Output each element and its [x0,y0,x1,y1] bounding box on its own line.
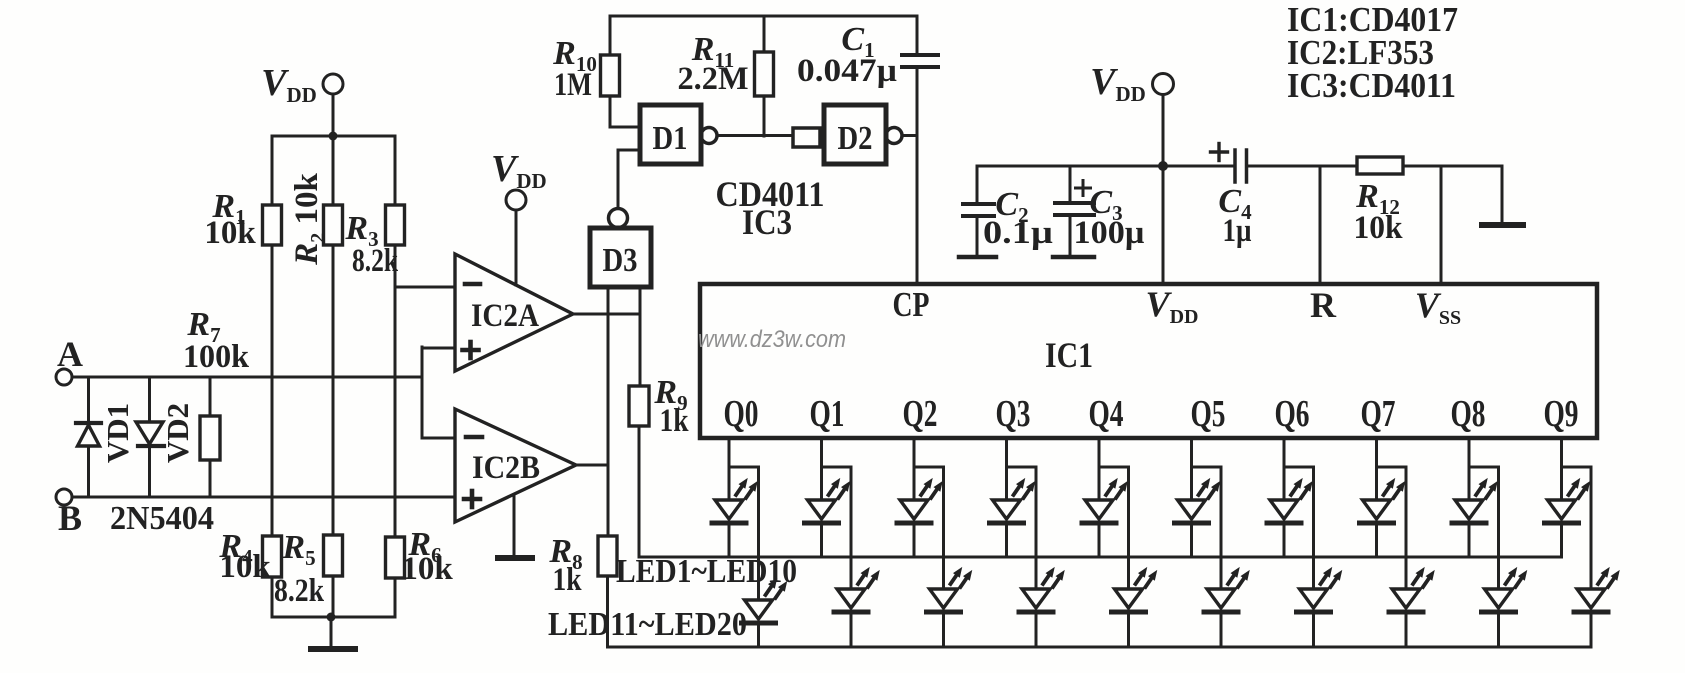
svg-text:1k: 1k [660,403,690,439]
LED LED2 [805,479,850,557]
ground (top-right) [1482,222,1523,228]
power VDD terminal (right) [1090,61,1173,166]
svg-text:10k: 10k [204,215,256,251]
wire Q9 branch stub [1562,467,1592,589]
capacitor C3 [1053,166,1145,257]
LED LED5 [1082,479,1127,557]
svg-text:R: R [1310,285,1337,325]
pin label Q3 [996,393,1031,435]
pin label Q5 [1191,393,1226,435]
wire D2 out [902,134,917,137]
svg-text:Q6: Q6 [1275,393,1310,435]
svg-text:VSS: VSS [1415,285,1461,329]
svg-text:VDD: VDD [1090,61,1146,106]
power VDD terminal (op-amp) [491,148,547,285]
label IC list [1287,0,1458,105]
svg-text:Q8: Q8 [1451,393,1486,435]
svg-text:0.1µ: 0.1µ [983,215,1053,251]
capacitor C2 [959,166,1053,257]
svg-text:Q9: Q9 [1544,393,1579,435]
label CD4011 / IC3 [716,174,825,242]
wire B rail [72,496,455,499]
wire IC2B output [576,464,608,467]
watermark [698,326,846,353]
wire Q2 branch stub [914,467,944,589]
resistor R1 [204,136,281,251]
svg-text:1µ: 1µ [1223,213,1252,249]
svg-text:R5: R5 [281,529,315,570]
wire Q0 branch stub [729,467,759,600]
gate D1 [640,105,701,164]
wire Q5 branch stub [1192,467,1222,589]
svg-text:VDD: VDD [261,62,317,107]
wire A to inputs bracket [422,347,455,438]
pin label Q2 [903,393,938,435]
wire ground rail [272,616,395,619]
gate D2 [824,105,886,164]
wire LED11-20 cathode bus [608,646,1592,649]
svg-text:Q1: Q1 [810,393,845,435]
svg-text:VD1: VD1 [100,403,135,463]
svg-text:www.dz3w.com: www.dz3w.com [698,326,846,353]
resistor R6 [386,526,454,617]
LED LED15 [1112,568,1157,647]
wire LED1-10 cathode bus [639,556,1562,559]
wire CP net [916,69,919,284]
wire Q6 pin [1283,438,1286,500]
wire Q6 branch stub [1284,467,1314,589]
LED LED6 [1175,479,1220,557]
pin label VSS [1415,285,1461,329]
diode VD1 [76,377,135,497]
resistor R10 [552,16,640,127]
pin label Q9 [1544,393,1579,435]
label LED1~LED10 [616,553,797,590]
svg-text:Q0: Q0 [724,393,759,435]
wire R2 lower [332,245,335,535]
svg-text:2N5404: 2N5404 [110,500,214,537]
wire supply rail [977,166,1502,222]
svg-text:D1: D1 [653,120,688,157]
terminal A [56,334,83,385]
wire Q3 branch stub [1007,467,1037,589]
bubble D2 output [886,128,902,144]
svg-text:Q4: Q4 [1089,393,1124,435]
resistor R8 [548,533,617,647]
resistor R2 [289,136,343,266]
wire VSS pin [1440,166,1443,284]
capacitor C4 [1211,144,1253,250]
wire A rail [72,376,422,379]
diode VD2 [136,377,195,497]
svg-text:1k: 1k [553,562,583,598]
junction dot ground [327,613,336,622]
wire IC2A output [573,313,640,316]
wire IC2A inverting input [395,286,455,289]
LED LED14 [1019,568,1064,647]
LED LED16 [1204,568,1249,647]
svg-text:IC2B: IC2B [472,450,540,486]
ground (bottom-left) [311,617,355,649]
wire top rail [610,15,917,18]
wire D3 input left / to R8 [607,287,610,536]
svg-text:1M: 1M [554,67,592,103]
bubble D1 output [701,128,717,144]
svg-text:R2 10k: R2 10k [289,173,329,266]
svg-text:A: A [57,334,83,374]
gate D2 input stub [793,128,820,147]
label IC1 [1045,335,1093,375]
svg-text:Q2: Q2 [903,393,938,435]
LED LED11 [742,579,787,647]
capacitor C1 [797,16,938,89]
wire Q4 branch stub [1099,467,1129,589]
LED LED18 [1389,568,1434,647]
label 2N5404 [110,500,214,537]
pin label Q4 [1089,393,1124,435]
LED LED8 [1360,479,1405,557]
wire R3 lower [394,245,397,537]
svg-text:IC1: IC1 [1045,335,1093,375]
wire Q1 branch stub [822,467,852,589]
op-amp IC2B [455,409,576,522]
bubble D3 output [609,209,628,228]
LED LED13 [927,568,972,647]
LED LED3 [897,479,942,557]
wire R pin [1319,166,1322,284]
svg-text:IC3:CD4011: IC3:CD4011 [1287,66,1456,105]
wire R1 lower [271,245,274,536]
gate D3 [590,228,651,287]
LED LED9 [1452,479,1497,557]
wire Q8 branch stub [1469,467,1499,589]
ground (IC2B) [498,497,532,558]
LED LED1 [712,479,757,557]
wire Q8 pin [1468,438,1471,500]
resistor R7 [183,306,250,497]
svg-text:Q3: Q3 [996,393,1031,435]
op-amp IC2A [455,254,573,371]
pin label Q0 [724,393,759,435]
junction dot VDD-left [329,132,338,141]
resistor R9 [629,374,689,557]
LED LED19 [1482,568,1527,647]
pin label CP [893,285,930,324]
wire D1 out to D2 [717,134,793,137]
resistor R4 [218,528,281,617]
junction dot VDD-right [1158,161,1168,171]
svg-text:10k: 10k [401,551,453,587]
svg-text:0.047µ: 0.047µ [797,53,897,89]
svg-text:VDD: VDD [491,148,547,193]
svg-text:8.2k: 8.2k [274,573,325,609]
svg-text:100µ: 100µ [1074,215,1145,251]
pin label Q1 [810,393,845,435]
svg-text:LED1~LED10: LED1~LED10 [616,553,797,590]
wire Q2 pin [913,438,916,500]
LED LED17 [1297,568,1342,647]
svg-text:CP: CP [893,285,930,324]
label LED11~LED20 [548,606,747,643]
wire Q7 branch stub [1377,467,1407,589]
wire Q0 pin [728,438,731,500]
resistor R12 [1354,157,1404,246]
wire Q7 pin [1375,438,1378,500]
svg-text:D2: D2 [838,120,873,157]
wire VDD pin [1162,166,1165,284]
IC IC1 block [700,284,1597,438]
wire Q9 pin [1560,438,1563,500]
svg-text:LED11~LED20: LED11~LED20 [548,606,747,643]
wire Q1 pin [820,438,823,500]
svg-text:100k: 100k [183,339,250,375]
svg-text:2.2M: 2.2M [678,61,749,97]
wire Q5 pin [1190,438,1193,500]
pin label R [1310,285,1337,325]
LED LED7 [1267,479,1312,557]
wire VDD rail left [272,135,395,138]
svg-text:IC2A: IC2A [471,298,539,334]
wire D3 out to D1 input [618,150,640,208]
svg-text:IC3: IC3 [742,202,792,242]
svg-text:Q5: Q5 [1191,393,1226,435]
LED LED4 [990,479,1035,557]
resistor R5 [274,529,343,617]
LED LED10 [1545,479,1590,557]
svg-text:8.2k: 8.2k [352,243,398,279]
svg-text:VDD: VDD [1146,284,1199,328]
pin label Q7 [1361,393,1396,435]
svg-text:10k: 10k [1354,210,1404,246]
terminal B [56,489,82,538]
svg-text:D3: D3 [603,242,638,279]
svg-text:Q7: Q7 [1361,393,1396,435]
power VDD terminal (left) [261,62,343,136]
resistor R3 [344,136,404,279]
svg-text:B: B [58,498,82,538]
LED LED12 [834,568,879,647]
pin label Q6 [1275,393,1310,435]
wire D3 input right / to R9 [639,287,642,386]
LED LED20 [1574,568,1619,647]
wire Q4 pin [1098,438,1101,500]
pin label VDD [1146,284,1199,328]
svg-text:VD2: VD2 [160,403,195,463]
pin label Q8 [1451,393,1486,435]
svg-text:10k: 10k [219,549,271,585]
wire Q3 pin [1005,438,1008,500]
resistor R11 [678,16,774,136]
